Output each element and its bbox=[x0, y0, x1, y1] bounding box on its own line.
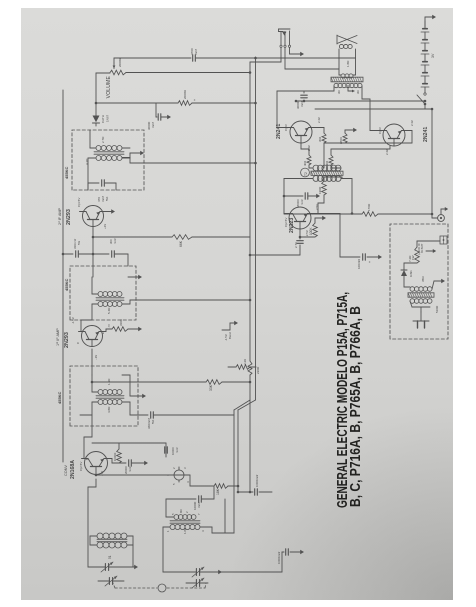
resistor 190ohm bbox=[318, 177, 342, 203]
svg-text:5%: 5% bbox=[151, 419, 155, 424]
svg-text:10000mmf: 10000mmf bbox=[277, 551, 281, 564]
labels Q3 voltages bbox=[77, 198, 107, 229]
svg-text:mmf: mmf bbox=[175, 447, 179, 453]
earphone jack contacts bbox=[280, 31, 291, 47]
wire volume bottom bbox=[126, 71, 251, 74]
title line 1 bbox=[335, 292, 351, 508]
osc coil pin labels bbox=[166, 509, 205, 534]
svg-text:5%: 5% bbox=[105, 196, 109, 201]
svg-text:2ᵈ IF AMP: 2ᵈ IF AMP bbox=[58, 207, 62, 225]
svg-text:C(2.5V: C(2.5V bbox=[79, 462, 83, 471]
svg-text:4: 4 bbox=[186, 481, 190, 483]
svg-text:2.4V: 2.4V bbox=[385, 149, 389, 155]
wire under osc cap bbox=[213, 486, 215, 499]
svg-text:5: 5 bbox=[171, 513, 175, 515]
output transformer secondary bbox=[341, 74, 353, 78]
resistor 680ohm bbox=[324, 128, 357, 144]
svg-text:100K: 100K bbox=[309, 227, 313, 235]
svg-text:4.8Ω: 4.8Ω bbox=[107, 406, 111, 413]
ground terminal bbox=[426, 249, 436, 253]
AC plug bbox=[413, 312, 429, 328]
antenna loopstick coil L1 left winding bbox=[97, 542, 127, 548]
label 1.8ohm bbox=[346, 60, 350, 67]
wire Q6 collector to OT bottom bbox=[362, 86, 383, 131]
terminal block B bbox=[417, 236, 447, 244]
2nd IFT secondary coil bbox=[92, 277, 122, 297]
earphone jack wiring bbox=[281, 47, 339, 69]
wire loopstick bottom b bbox=[127, 536, 133, 545]
wire osc tank top bbox=[163, 527, 185, 572]
diode 1N67 detector bbox=[93, 103, 100, 126]
wire feedback B bbox=[315, 108, 433, 111]
capacitor 20000mmf driver bbox=[283, 193, 320, 207]
svg-text:2000Ω: 2000Ω bbox=[118, 57, 122, 67]
capacitor 10000mmf ant bbox=[214, 549, 304, 572]
label 2N241 upper bbox=[276, 124, 282, 139]
label 455KC third IFT bbox=[64, 166, 69, 179]
oscillator coil L2 left winding bbox=[170, 524, 200, 529]
svg-text:Band: Band bbox=[228, 332, 232, 339]
labels Q6 bbox=[378, 120, 414, 155]
2nd IFT labels bbox=[107, 307, 111, 314]
dashed box 1st IF transformer bbox=[70, 366, 138, 426]
resistor 30ohm emitters bbox=[312, 128, 326, 169]
svg-text:2.7Ω: 2.7Ω bbox=[101, 136, 105, 143]
svg-text:1.8Ω: 1.8Ω bbox=[346, 60, 350, 67]
svg-text:5: 5 bbox=[172, 483, 176, 485]
svg-text:40Ω: 40Ω bbox=[325, 161, 329, 166]
rail jog bbox=[234, 400, 256, 410]
wire Q2 collector bbox=[81, 320, 92, 332]
antenna loopstick right winding bbox=[97, 533, 127, 539]
transistor Q5 2N241 upper output bbox=[287, 121, 315, 143]
svg-text:4: 4 bbox=[201, 530, 205, 532]
dashed box power supply bbox=[390, 224, 448, 339]
svg-text:C: C bbox=[76, 341, 80, 344]
svg-text:1: 1 bbox=[166, 474, 170, 476]
wire battery return W bbox=[425, 109, 432, 218]
svg-text:2.3V: 2.3V bbox=[307, 145, 311, 151]
svg-text:8Ω: 8Ω bbox=[179, 509, 183, 513]
svg-text:4.2Ω: 4.2Ω bbox=[85, 158, 89, 165]
label VOLUME bbox=[106, 76, 112, 99]
wire Q4 collector to T2 bbox=[284, 179, 313, 214]
svg-text:3Ω: 3Ω bbox=[356, 90, 360, 94]
2nd IFT core bbox=[96, 298, 124, 300]
svg-text:2N168A: 2N168A bbox=[70, 460, 76, 479]
osc coupling cap bbox=[95, 474, 108, 477]
svg-text:mmf: mmf bbox=[197, 502, 201, 508]
ground 2nd IFT bbox=[128, 275, 142, 279]
ground 3rd IFT bbox=[122, 148, 144, 158]
capacitor 360mmf 5% bbox=[147, 412, 234, 429]
svg-text:VOLUME: VOLUME bbox=[106, 76, 112, 99]
label CATH 1N67 bbox=[101, 114, 110, 123]
resistor 40ohm lower bbox=[325, 146, 390, 168]
svg-text:3: 3 bbox=[183, 467, 187, 469]
wire IFT3 tap to rail bbox=[122, 158, 257, 165]
svg-text:1W: 1W bbox=[411, 255, 415, 260]
dashed tuning gang link bbox=[112, 581, 206, 592]
svg-text:2.3V: 2.3V bbox=[410, 120, 414, 126]
T2 primary coil bbox=[313, 176, 341, 182]
resistor 100K bias bbox=[299, 218, 318, 238]
svg-text:CONV: CONV bbox=[64, 465, 68, 476]
2nd IFT primary coil bbox=[92, 302, 122, 321]
bottom rail R2 bbox=[248, 62, 260, 492]
wire IFT2 sec to Q3 base bbox=[92, 227, 95, 278]
rail junction riser x115 bbox=[237, 474, 272, 495]
wire primary center tap arrow bbox=[348, 86, 355, 93]
power jack external bbox=[432, 207, 448, 221]
capacitor 330mmf neutralizing bbox=[62, 239, 93, 258]
svg-text:mmf: mmf bbox=[128, 466, 132, 472]
svg-text:mmf: mmf bbox=[300, 101, 304, 107]
svg-text:1.5Ω: 1.5Ω bbox=[107, 378, 111, 385]
label 2N241 lower bbox=[423, 127, 429, 142]
wire IFT1 primary top bbox=[80, 415, 92, 426]
transistor Q2 2N293 first IF amp bbox=[64, 326, 106, 349]
labels 3ohm center tap bbox=[337, 90, 360, 94]
svg-text:455KC: 455KC bbox=[64, 278, 69, 291]
trimmer capacitor antenna bbox=[98, 576, 124, 586]
resistor 33K AGC bbox=[91, 380, 252, 391]
3rd IFT primary coil bbox=[85, 156, 122, 191]
socket circle with pins bbox=[166, 467, 190, 485]
label 35ohm bbox=[421, 276, 425, 282]
wire Q5 collector to OT top bbox=[277, 86, 334, 128]
vertical line V4 det/AVC bbox=[96, 89, 257, 105]
label B -.7V conv bbox=[85, 458, 104, 476]
wire T2 primary bottom bbox=[341, 179, 353, 215]
capacitor coupling to driver bbox=[297, 229, 304, 244]
trimmer capacitor osc bbox=[186, 578, 208, 588]
battery right end arrow bbox=[425, 15, 436, 27]
T2 secondary coil bbox=[313, 165, 341, 171]
bottom rail pair left bbox=[234, 410, 238, 533]
svg-text:+: + bbox=[368, 261, 372, 263]
1st IFT secondary coil bbox=[92, 375, 122, 395]
svg-text:2000Ω: 2000Ω bbox=[183, 89, 187, 99]
resistor 330 Q2 emitter bbox=[100, 319, 142, 331]
wire IFT1 sec to Q2 base bbox=[91, 349, 93, 375]
svg-text:18K: 18K bbox=[216, 488, 220, 495]
svg-text:-.3V: -.3V bbox=[94, 355, 98, 360]
svg-text:5%: 5% bbox=[77, 240, 81, 245]
svg-text:680Ω: 680Ω bbox=[339, 137, 343, 144]
bottom rail R3 bbox=[255, 57, 257, 400]
ground PT bbox=[434, 279, 445, 283]
speaker magnet cross bbox=[337, 35, 357, 44]
svg-text:170Ω: 170Ω bbox=[367, 203, 371, 211]
variable capacitor C1B tuning (osc) bbox=[180, 567, 207, 577]
svg-text:+: + bbox=[193, 99, 197, 101]
svg-text:3V BATT: 3V BATT bbox=[421, 243, 424, 253]
label 510ohm bbox=[435, 305, 439, 313]
wire det to volume bbox=[95, 73, 110, 104]
svg-text:40Ω: 40Ω bbox=[303, 161, 307, 166]
ground below osc section bbox=[207, 570, 222, 574]
svg-text:5.4Ω: 5.4Ω bbox=[107, 307, 111, 314]
rail R2 right turn down V2 bbox=[250, 61, 281, 63]
svg-text:510Ω: 510Ω bbox=[435, 305, 439, 313]
resistor 7.2ohm 1W bbox=[404, 241, 419, 263]
svg-text:10000mmf: 10000mmf bbox=[255, 474, 259, 487]
wire jack riser V3 bbox=[284, 213, 362, 215]
oscillator coil core bbox=[170, 521, 200, 523]
resistor 2.2K bbox=[228, 359, 256, 369]
svg-text:C(3.5V: C(3.5V bbox=[77, 198, 81, 207]
svg-text:2: 2 bbox=[185, 511, 189, 513]
wire osc sec to mixer bbox=[166, 499, 196, 517]
wire Q4 emitter bbox=[308, 203, 324, 214]
transistor Q1 2N168A converter bbox=[70, 452, 111, 480]
output transformer primary bbox=[334, 83, 362, 87]
wire conv collector bbox=[84, 426, 92, 459]
dashed box 3rd IF transformer bbox=[72, 130, 144, 190]
speaker frame bbox=[339, 49, 356, 75]
wire antenna tank top bbox=[88, 479, 96, 567]
labels Q4 voltages bbox=[284, 204, 319, 248]
switch on-off bbox=[417, 93, 426, 109]
earphone jack plug body bbox=[279, 29, 291, 36]
svg-text:2N241: 2N241 bbox=[423, 127, 429, 142]
diode 1N91 bbox=[401, 263, 413, 287]
svg-text:mmf: mmf bbox=[194, 49, 198, 55]
transistor Q4 2N323 driver bbox=[286, 207, 314, 229]
left return corner bbox=[225, 499, 234, 533]
transformer T2 label bbox=[301, 168, 310, 177]
label 455KC second IFT bbox=[64, 278, 69, 291]
electrolytic 100mfd bbox=[318, 214, 382, 270]
AGC band arrow bbox=[222, 321, 238, 341]
transistor Q3 2N293 second IF amp bbox=[66, 206, 107, 227]
svg-text:CATH: CATH bbox=[101, 115, 105, 123]
label 2nd IF AMP bbox=[58, 207, 62, 225]
feedback line V5 bbox=[295, 100, 427, 103]
capacitor 4700mmf coupling bbox=[190, 48, 356, 61]
label C 2.5V conv bbox=[79, 462, 83, 471]
3rd IFT secondary coil bbox=[90, 130, 122, 151]
label CONV bbox=[64, 465, 68, 476]
svg-text:.7V: .7V bbox=[107, 324, 111, 328]
power transformer secondary bbox=[410, 281, 434, 291]
label plus end batt bbox=[418, 242, 424, 255]
battery 3V cells bbox=[421, 21, 429, 93]
resistor 170ohm bbox=[362, 203, 378, 216]
antenna loopstick core bbox=[97, 539, 127, 541]
ground Q3 emitter bbox=[101, 209, 115, 213]
svg-text:1N67: 1N67 bbox=[106, 114, 110, 122]
label 3V bbox=[431, 53, 435, 58]
resistor 40ohm upper bbox=[301, 143, 313, 168]
potentiometer volume 2000ohm bbox=[110, 57, 126, 74]
speaker voice coil loops bbox=[339, 44, 352, 48]
svg-text:7: 7 bbox=[197, 513, 201, 515]
svg-text:E: E bbox=[101, 332, 105, 334]
resistor 66K bbox=[93, 235, 250, 247]
svg-text:455KC: 455KC bbox=[64, 166, 69, 179]
svg-text:2: 2 bbox=[172, 467, 176, 469]
resistor 1000ohm conv emitter bbox=[92, 443, 121, 463]
wire 170 down bbox=[378, 213, 433, 216]
svg-text:B, C, P716A, B, P765A, B, P766: B, C, P716A, B, P765A, B, P766A, B bbox=[348, 306, 364, 507]
svg-text:T2: T2 bbox=[304, 172, 308, 176]
transistor Q6 2N241 lower output bbox=[380, 124, 408, 146]
svg-text:2.7V: 2.7V bbox=[294, 242, 298, 248]
wire loopstick top tie bbox=[90, 536, 97, 545]
ground conv emitter bbox=[140, 461, 148, 465]
labels Q5 bbox=[284, 117, 321, 151]
variable capacitor C1A tuning (antenna) bbox=[88, 562, 116, 572]
output transformer core hatched bbox=[331, 77, 363, 82]
wire 18K top bbox=[108, 475, 214, 486]
oscillator coil right winding bbox=[174, 515, 196, 520]
capacitor 300mmf bbox=[93, 238, 128, 266]
svg-text:1: 1 bbox=[166, 530, 170, 532]
svg-text:100mfd: 100mfd bbox=[357, 259, 361, 269]
capacitor 30000mmf AVC bbox=[147, 103, 171, 130]
top rail bbox=[62, 90, 64, 462]
svg-text:mmf: mmf bbox=[151, 122, 155, 128]
label 1st IF AMP bbox=[56, 328, 60, 346]
1st IFT primary coil bbox=[92, 400, 130, 416]
wire Q6 emitter bbox=[345, 131, 412, 144]
resistor 18K bbox=[214, 484, 239, 495]
svg-text:66K: 66K bbox=[179, 240, 183, 247]
svg-text:1.8Ω: 1.8Ω bbox=[183, 528, 187, 534]
svg-text:1000Ω: 1000Ω bbox=[113, 453, 117, 461]
capacitor 10000mmf osc bbox=[193, 496, 214, 510]
svg-text:30Ω: 30Ω bbox=[318, 137, 322, 142]
ground below C1A bbox=[116, 565, 138, 569]
power transformer primary bbox=[410, 299, 432, 312]
power transformer core hatched bbox=[408, 293, 434, 297]
wire rail to Q4 base bbox=[249, 245, 300, 256]
svg-text:33K: 33K bbox=[209, 384, 213, 391]
capacitor 470mmf bbox=[88, 180, 116, 202]
svg-text:2N293: 2N293 bbox=[64, 332, 70, 348]
label 2N323 bbox=[289, 218, 295, 233]
svg-text:1ˢᵗ IF AMP: 1ˢᵗ IF AMP bbox=[56, 328, 60, 346]
1st IFT core bbox=[96, 396, 124, 398]
wire volume wiper to V1 bbox=[114, 58, 191, 63]
3rd IFT core bbox=[94, 152, 124, 154]
svg-text:+2V: +2V bbox=[103, 224, 107, 229]
svg-text:2.2K: 2.2K bbox=[243, 359, 247, 365]
label 51 bbox=[108, 555, 112, 559]
label 455KC first IFT bbox=[57, 391, 62, 404]
svg-text:C(2.5V: C(2.5V bbox=[284, 218, 288, 227]
wire IFT2 bottom tap bbox=[122, 299, 251, 304]
ground 1st IFT bbox=[122, 375, 146, 398]
svg-text:-1.5V: -1.5V bbox=[71, 317, 75, 324]
svg-text:3V: 3V bbox=[431, 53, 435, 58]
dashed box 2nd IF transformer bbox=[70, 266, 136, 320]
wire osc bottom to rail bbox=[200, 527, 234, 533]
svg-text:3Ω: 3Ω bbox=[337, 90, 341, 94]
svg-text:1N91: 1N91 bbox=[409, 270, 413, 277]
1st IFT labels bbox=[107, 378, 111, 413]
capacitor 30000mmf tone bbox=[296, 91, 307, 109]
wire Q3 collector bbox=[80, 211, 85, 213]
svg-text:35Ω: 35Ω bbox=[421, 276, 425, 282]
wire loopstick bottom bbox=[127, 545, 133, 567]
svg-text:mmf: mmf bbox=[113, 238, 117, 244]
T2 core hatched bbox=[311, 171, 343, 175]
svg-text:2.4V: 2.4V bbox=[317, 117, 321, 123]
wire 10000mmf mixer cap bbox=[119, 443, 179, 457]
capacitor 20000mmf conv emitter bbox=[119, 460, 140, 474]
wire IFT1 bottom tap bbox=[130, 402, 148, 415]
title line 2 bbox=[348, 306, 364, 507]
svg-text:455KC: 455KC bbox=[57, 391, 62, 404]
svg-text:190Ω: 190Ω bbox=[318, 186, 322, 194]
labels Q2 voltages bbox=[71, 317, 111, 360]
svg-text:220Ω: 220Ω bbox=[256, 366, 260, 374]
ground 100K bbox=[315, 216, 326, 220]
svg-text:2N293: 2N293 bbox=[66, 209, 72, 225]
wire conv emitter bbox=[104, 459, 112, 464]
svg-text:mmf: mmf bbox=[300, 199, 304, 205]
svg-text:51: 51 bbox=[108, 555, 112, 559]
